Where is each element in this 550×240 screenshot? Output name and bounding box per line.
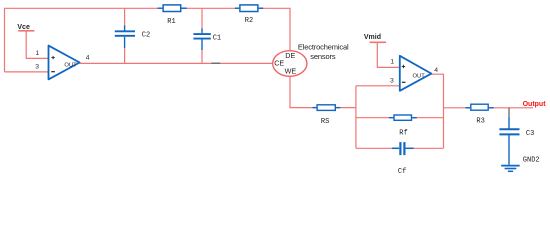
wire sensor WE down to RS rail	[290, 76, 356, 108]
svg-text:WE: WE	[285, 67, 297, 76]
svg-text:GND2: GND2	[523, 157, 540, 165]
svg-text:C1: C1	[213, 35, 221, 43]
svg-text:OUT: OUT	[64, 62, 77, 68]
resistor RS	[313, 105, 341, 111]
capacitor C1	[193, 29, 210, 51]
wire Cf rail	[356, 147, 393, 149]
svg-text:CE: CE	[274, 59, 284, 68]
net label Vce	[17, 24, 34, 31]
svg-text:3: 3	[35, 64, 39, 71]
capacitor C2	[115, 26, 135, 49]
svg-text:4: 4	[434, 67, 438, 74]
svg-text:Vmid: Vmid	[364, 34, 381, 41]
svg-text:1: 1	[36, 50, 40, 57]
svg-text:sensors: sensors	[310, 52, 336, 61]
svg-text:Rf: Rf	[399, 130, 407, 138]
label Electrochemical sensors	[298, 43, 349, 61]
svg-text:C2: C2	[142, 32, 150, 40]
svg-text:C3: C3	[526, 130, 534, 138]
svg-text:3: 3	[390, 77, 394, 84]
svg-text:RS: RS	[321, 118, 329, 126]
wire C3 branch upper dark segment	[508, 108, 510, 117]
svg-text:DE: DE	[285, 51, 295, 60]
svg-text:Electrochemical: Electrochemical	[298, 43, 349, 52]
capacitor Cf	[392, 142, 414, 155]
svg-text:Output: Output	[523, 101, 547, 108]
junction tick on mid rail	[211, 62, 220, 64]
wire Rf rail	[356, 117, 444, 119]
wire Vce to U1 pin 1	[26, 31, 48, 59]
wire U1 inverting input from left rail	[5, 71, 49, 73]
wire U1 output mid rail to sensor CE	[80, 62, 273, 64]
resistor R3	[465, 104, 493, 110]
svg-text:OUT: OUT	[413, 73, 426, 79]
svg-text:R2: R2	[245, 17, 253, 25]
wire top feedback rail	[5, 8, 291, 72]
net label Vmid	[364, 34, 386, 42]
op-amp U1	[49, 46, 80, 80]
wire U2 output right vertical	[431, 74, 443, 148]
wire C1 branch vertical	[201, 8, 203, 29]
capacitor C3	[499, 117, 519, 165]
svg-text:R3: R3	[476, 118, 484, 126]
svg-text:R1: R1	[167, 18, 175, 26]
op-amp U2	[400, 56, 432, 91]
resistor R2	[235, 5, 263, 12]
wire Vmid to U2 pin 1	[377, 42, 400, 67]
electrochemical sensor cell	[273, 51, 307, 77]
svg-text:1: 1	[390, 59, 394, 66]
resistor R1	[158, 5, 187, 12]
ground GND2	[501, 166, 520, 172]
wire C2 branch vertical	[124, 8, 126, 26]
svg-text:Vce: Vce	[17, 24, 30, 31]
wire U2 pin 3 input	[356, 85, 400, 87]
wire R3 output rail	[444, 107, 534, 109]
svg-text:4: 4	[86, 55, 90, 62]
svg-text:Cf: Cf	[398, 168, 406, 176]
wire feedback left vertical	[355, 86, 357, 149]
resistor Rf	[389, 115, 417, 120]
